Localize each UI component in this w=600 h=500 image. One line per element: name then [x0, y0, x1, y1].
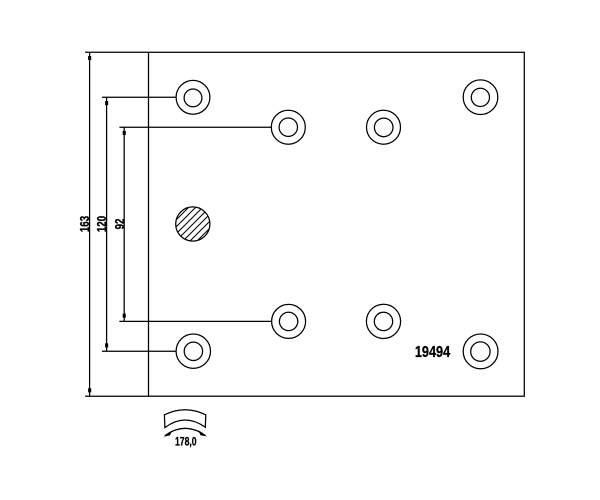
dim 92 arrow top — [123, 131, 126, 135]
width symbol arrowhead right — [198, 430, 207, 436]
svg-text:92: 92 — [114, 219, 127, 230]
hole H6 outer — [272, 304, 306, 338]
svg-text:19494: 19494 — [415, 344, 450, 362]
dim 120 line — [106, 97, 108, 351]
dim 92 leader top — [119, 126, 271, 128]
svg-text:163: 163 — [79, 216, 92, 232]
hatched hole outline — [176, 207, 210, 241]
dim 163 arrow bottom — [88, 388, 91, 392]
hatched hole hatching — [146, 195, 243, 250]
svg-text:120: 120 — [96, 216, 109, 232]
hole H1 top-left outer — [176, 80, 210, 114]
plate outline — [149, 52, 525, 396]
svg-text:178,0: 178,0 — [175, 436, 197, 449]
dim 120 arrow bottom — [105, 343, 108, 347]
hole H5 bottom-left inner — [184, 342, 202, 360]
hole H5 bottom-left outer — [176, 334, 210, 368]
hole H1 top-left inner — [184, 89, 202, 107]
hole H7 inner — [374, 312, 392, 330]
hole H8 bottom-right inner — [471, 342, 490, 361]
hole H4 top-right outer — [463, 80, 498, 115]
dim 120 leader bottom — [102, 350, 176, 352]
hole H3 outer — [367, 110, 401, 144]
width symbol arrowhead left — [164, 430, 173, 437]
width symbol arrow arc — [165, 428, 206, 436]
width symbol band — [164, 410, 205, 428]
hole H4 top-right inner — [471, 88, 489, 106]
hole H2 inner — [279, 118, 297, 136]
dim 163 line — [89, 52, 91, 396]
dim 163 arrow top — [88, 56, 91, 60]
dim 120 arrow top — [105, 101, 108, 105]
dim 120 leader top — [102, 96, 176, 98]
hole H8 bottom-right outer — [463, 334, 498, 369]
hole H3 inner — [374, 118, 393, 137]
hole H2 outer — [271, 110, 305, 144]
dim 92 leader bottom — [119, 320, 271, 322]
hole H7 outer — [366, 304, 400, 338]
dim 92 line — [123, 127, 125, 321]
dim 92 arrow bottom — [123, 314, 126, 318]
dim 163 extension line top — [85, 51, 148, 53]
hole H6 inner — [279, 312, 297, 330]
dim 163 extension line bottom — [85, 395, 148, 397]
